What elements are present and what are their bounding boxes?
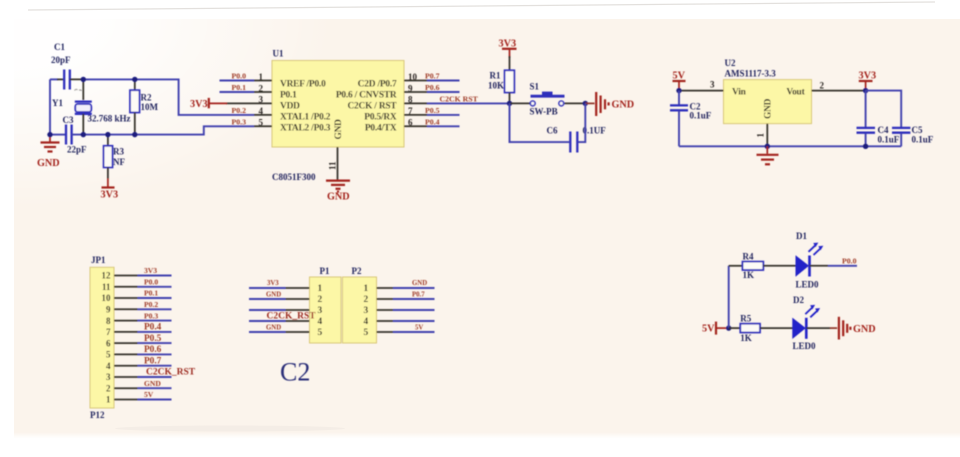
svg-text:2: 2 xyxy=(106,383,111,393)
wire: left ground rail xyxy=(49,79,51,134)
svg-text:1K: 1K xyxy=(740,333,752,343)
wire P0.6 xyxy=(138,353,172,355)
svg-text:10: 10 xyxy=(408,72,418,82)
svg-text:5V: 5V xyxy=(673,71,686,82)
P2 wire P0.7 xyxy=(393,298,435,300)
svg-text:11: 11 xyxy=(328,161,338,170)
wire P0.3 xyxy=(138,320,172,322)
svg-text:P0.5: P0.5 xyxy=(425,106,440,115)
svg-text:3: 3 xyxy=(364,306,369,316)
pin 3 xyxy=(226,102,272,104)
pin 11 xyxy=(114,286,138,288)
svg-text:4: 4 xyxy=(364,317,369,327)
P2 pin 5 xyxy=(377,331,394,333)
wire: bottom wire to pin5 jog xyxy=(72,126,254,134)
pin stub C1 left xyxy=(57,78,64,80)
wire R5 to D2 xyxy=(760,327,793,329)
svg-text:P0.1: P0.1 xyxy=(232,83,247,92)
svg-text:5: 5 xyxy=(318,328,323,338)
svg-text:1: 1 xyxy=(756,133,766,138)
ground GND right of S1 (rotated) xyxy=(596,92,634,116)
svg-text:P1: P1 xyxy=(320,266,330,276)
resistor R2 xyxy=(130,79,140,134)
pin 5 xyxy=(114,353,138,355)
wire D1 to P0.0 xyxy=(810,265,829,267)
power 5V LED xyxy=(702,322,729,335)
svg-text:1: 1 xyxy=(106,395,111,405)
svg-text:LED0: LED0 xyxy=(793,341,817,351)
svg-text:5: 5 xyxy=(106,350,111,360)
wire pin2 P0.1 xyxy=(220,91,255,93)
svg-text:3: 3 xyxy=(106,372,111,382)
svg-text:2: 2 xyxy=(259,83,264,93)
pin 2 Vout wire xyxy=(812,90,866,92)
svg-text:U1: U1 xyxy=(273,49,284,59)
junction node GND rail xyxy=(765,144,770,149)
svg-text:P2: P2 xyxy=(352,266,362,276)
ground GND below U2 xyxy=(757,146,779,164)
svg-text:P0.6: P0.6 xyxy=(425,83,440,92)
svg-text:XTAL1 /P0.2: XTAL1 /P0.2 xyxy=(280,113,331,123)
svg-text:D1: D1 xyxy=(796,231,807,241)
P1 wire GND xyxy=(249,298,286,300)
pin 8 xyxy=(114,320,138,322)
P1 wire pin3 xyxy=(249,309,286,311)
wire R4 to D1 xyxy=(763,265,796,267)
wire node to ground xyxy=(585,102,594,104)
svg-text:10M: 10M xyxy=(141,102,159,112)
svg-text:5V: 5V xyxy=(702,323,715,334)
wire C2CK RST to R1 node xyxy=(427,102,510,104)
svg-text:P0.7: P0.7 xyxy=(412,291,425,298)
P2 wire 5V xyxy=(393,331,435,333)
svg-text:GND: GND xyxy=(266,291,281,298)
svg-text:3: 3 xyxy=(318,306,323,316)
svg-text:P12: P12 xyxy=(90,410,105,420)
wire 5V xyxy=(138,399,172,401)
svg-text:2: 2 xyxy=(318,295,323,305)
pin 9 xyxy=(404,91,427,93)
svg-text:SW-PB: SW-PB xyxy=(530,107,558,117)
svg-text:8: 8 xyxy=(408,95,413,105)
wire C2CK_RST xyxy=(138,376,172,378)
svg-text:2: 2 xyxy=(364,295,369,305)
wire Vout to C5 xyxy=(866,91,902,127)
capacitor C6 xyxy=(570,132,577,153)
svg-text:P0.2: P0.2 xyxy=(144,300,158,309)
svg-text:3V3: 3V3 xyxy=(267,280,279,287)
pin 1 GND stem xyxy=(766,124,768,147)
svg-text:GND: GND xyxy=(764,98,774,119)
pin 7 xyxy=(114,331,138,333)
svg-text:5V: 5V xyxy=(415,324,423,331)
svg-text:P0.4: P0.4 xyxy=(425,117,440,126)
svg-text:GND: GND xyxy=(334,119,344,140)
P1 wire GND2 xyxy=(249,331,286,333)
capacitor C4 xyxy=(857,91,876,147)
svg-text:9: 9 xyxy=(106,305,111,315)
junction node 5V LED xyxy=(726,325,731,330)
svg-text:Y1: Y1 xyxy=(52,98,63,108)
svg-text:P0.3: P0.3 xyxy=(144,311,158,320)
svg-text:C1: C1 xyxy=(54,42,65,52)
junction R2 bottom xyxy=(132,132,137,137)
P1 pin 1 xyxy=(286,287,310,289)
svg-text:P0.1: P0.1 xyxy=(144,289,158,298)
pin 5 xyxy=(254,125,272,127)
ground GND at left rail xyxy=(37,135,60,169)
svg-text:VREF /P0.0: VREF /P0.0 xyxy=(280,79,326,89)
wire P0.2 xyxy=(138,308,172,310)
wire node to R5 xyxy=(729,327,741,329)
svg-text:P0.7: P0.7 xyxy=(425,72,440,81)
LED D2 xyxy=(793,305,820,339)
pin 4 xyxy=(114,365,138,367)
svg-text:GND: GND xyxy=(327,192,350,203)
LED D1 xyxy=(796,243,823,277)
svg-text:C2CK_RST: C2CK_RST xyxy=(146,368,196,378)
svg-text:20pF: 20pF xyxy=(51,55,71,65)
wire: bottom wire left segment xyxy=(50,134,66,136)
svg-text:7: 7 xyxy=(106,327,111,337)
junction crystal top xyxy=(81,77,86,82)
resistor R1 xyxy=(505,56,515,103)
svg-text:R3: R3 xyxy=(113,147,124,157)
wire pin1 P0.0 xyxy=(220,80,255,82)
svg-text:JP1: JP1 xyxy=(91,255,106,265)
pin 9 xyxy=(114,308,138,310)
resistor R3 xyxy=(104,135,113,179)
svg-text:0.1uF: 0.1uF xyxy=(912,135,934,145)
wire node to S1 xyxy=(510,102,531,104)
svg-text:R1: R1 xyxy=(490,71,501,81)
pin 3 Vin wire xyxy=(679,90,724,92)
svg-text:C5: C5 xyxy=(912,125,923,135)
svg-text:U2: U2 xyxy=(725,58,736,68)
svg-text:R2: R2 xyxy=(141,93,152,103)
pin 6 xyxy=(114,342,138,344)
wire P0.7 xyxy=(427,80,460,82)
pin 2 xyxy=(114,387,138,389)
svg-text:Vin: Vin xyxy=(732,88,747,98)
svg-text:GND: GND xyxy=(37,158,60,169)
P2 wire GND xyxy=(393,287,435,289)
svg-text:P0.0: P0.0 xyxy=(232,72,247,81)
svg-text:D2: D2 xyxy=(793,295,804,305)
svg-text:9: 9 xyxy=(408,83,413,93)
wire: top wire left of C1 xyxy=(50,78,58,80)
junction R2 top xyxy=(132,77,137,82)
svg-text:4: 4 xyxy=(106,361,111,371)
svg-text:C2CK / RST: C2CK / RST xyxy=(347,102,397,112)
wire to R4 xyxy=(729,265,743,267)
wire S1 to GND node xyxy=(565,102,586,104)
pin 10 xyxy=(404,80,427,82)
svg-text:3: 3 xyxy=(259,95,264,105)
wire GND xyxy=(138,387,172,389)
wire P0.4 xyxy=(427,125,460,127)
wire P0.6 xyxy=(427,91,460,93)
wire P0.5 xyxy=(138,342,172,344)
svg-text:3V3: 3V3 xyxy=(190,99,208,110)
wire 3V3 xyxy=(138,275,172,277)
junction R3 top xyxy=(105,132,110,137)
svg-text:11: 11 xyxy=(102,282,111,292)
svg-text:P0.4/TX: P0.4/TX xyxy=(365,124,397,134)
P1 pin 5 xyxy=(286,331,310,333)
svg-text:6: 6 xyxy=(106,338,111,348)
wire P0.1 xyxy=(138,297,172,299)
resistor R4 xyxy=(743,262,764,270)
wire C6 branch left xyxy=(510,103,570,142)
tiny print mark near C1 xyxy=(75,89,82,91)
ground GND LED (rotated) xyxy=(839,317,876,340)
pin 2 xyxy=(254,91,272,93)
junction node RST right xyxy=(583,101,588,106)
svg-text:32.768 kHz: 32.768 kHz xyxy=(88,114,131,124)
pin 4 xyxy=(254,114,272,116)
svg-text:R5: R5 xyxy=(740,314,751,324)
junction node 3V3 xyxy=(863,88,868,93)
svg-text:GND: GND xyxy=(612,100,635,111)
svg-text:P0.4: P0.4 xyxy=(144,323,162,333)
resistor R5 xyxy=(740,324,760,333)
P2 wire pin4 xyxy=(393,320,435,322)
P1 pin 3 xyxy=(286,309,310,311)
P1 pin 2 xyxy=(286,298,310,300)
svg-text:10K: 10K xyxy=(488,81,504,91)
P1 wire C2CK_RST xyxy=(249,320,286,322)
wire P0.7 xyxy=(138,365,172,367)
wire P0.5 xyxy=(427,114,460,116)
svg-text:P0.1: P0.1 xyxy=(280,90,297,100)
junction node RST left xyxy=(507,101,512,106)
svg-text:8: 8 xyxy=(106,316,111,326)
svg-text:GND: GND xyxy=(412,280,427,287)
wire net P0.0 xyxy=(828,265,857,267)
P2 pin 1 xyxy=(377,287,394,289)
svg-text:GND: GND xyxy=(853,324,876,335)
svg-text:NF: NF xyxy=(113,157,125,167)
svg-text:3V3: 3V3 xyxy=(859,71,877,82)
wire P0.4 xyxy=(138,331,172,333)
connector P1 body xyxy=(310,277,342,343)
wire P0.0 xyxy=(138,286,172,288)
power 3V3 at pin 3 xyxy=(190,98,227,110)
svg-text:1: 1 xyxy=(364,284,369,294)
svg-text:P0.5/RX: P0.5/RX xyxy=(364,113,397,123)
pin 1 xyxy=(114,399,138,401)
svg-text:C2CK_RST: C2CK_RST xyxy=(267,312,317,322)
svg-text:C2CK RST: C2CK RST xyxy=(440,94,479,103)
P2 wire pin3 xyxy=(393,309,435,311)
power 5V xyxy=(673,71,686,91)
pin 7 xyxy=(404,114,427,116)
pin 11 xyxy=(337,147,339,180)
svg-text:7: 7 xyxy=(408,106,413,116)
svg-text:1: 1 xyxy=(259,72,264,82)
svg-text:C3: C3 xyxy=(63,115,74,125)
svg-text:3V3: 3V3 xyxy=(144,266,157,275)
svg-text:P0.2: P0.2 xyxy=(232,106,247,115)
svg-text:5: 5 xyxy=(259,118,264,128)
wire 5V rail up to R4 xyxy=(728,266,730,328)
svg-text:C6: C6 xyxy=(547,126,558,136)
pin 10 xyxy=(114,297,138,299)
svg-text:P0.0: P0.0 xyxy=(144,278,158,287)
svg-text:6: 6 xyxy=(408,118,413,128)
svg-text:XTAL2 /P0.3: XTAL2 /P0.3 xyxy=(280,124,331,134)
P1 wire 3V3 xyxy=(249,287,286,289)
power 3V3 below R3 xyxy=(101,179,119,201)
wire ground rail xyxy=(679,145,901,147)
svg-text:P0.5: P0.5 xyxy=(144,334,162,344)
wire C6 branch right xyxy=(578,103,585,142)
svg-text:VDD: VDD xyxy=(280,102,300,112)
wire: top wire from C1 to pin4 jog xyxy=(86,79,254,115)
pin 6 xyxy=(404,125,427,127)
svg-text:5: 5 xyxy=(364,328,369,338)
svg-text:3V3: 3V3 xyxy=(101,190,119,201)
P1 pin 4 xyxy=(286,320,310,322)
svg-text:AMS1117-3.3: AMS1117-3.3 xyxy=(725,69,777,79)
svg-text:P0.3: P0.3 xyxy=(232,117,247,126)
svg-text:0.1uF: 0.1uF xyxy=(878,135,900,145)
svg-text:GND: GND xyxy=(144,379,161,388)
capacitor C5 xyxy=(892,128,910,146)
svg-text:4: 4 xyxy=(259,106,264,116)
power 3V3 above R1 xyxy=(499,39,517,59)
pin 8 xyxy=(404,102,427,104)
regulator U2 body xyxy=(724,80,812,124)
svg-text:4: 4 xyxy=(318,317,323,327)
wire D2 to ground xyxy=(806,327,830,329)
connector P2 body xyxy=(343,277,377,343)
svg-text:12: 12 xyxy=(102,271,112,281)
svg-text:10: 10 xyxy=(102,293,112,303)
svg-text:C8051F300: C8051F300 xyxy=(272,172,316,182)
svg-text:1K: 1K xyxy=(743,270,755,280)
switch S1 xyxy=(530,92,564,106)
pin 12 xyxy=(114,275,138,277)
capacitor C2 xyxy=(670,91,688,147)
svg-text:1: 1 xyxy=(318,284,323,294)
svg-text:P0.7: P0.7 xyxy=(144,356,162,366)
capacitor C1 xyxy=(64,70,70,90)
svg-text:3: 3 xyxy=(710,80,715,90)
svg-text:P0.6 / CNVSTR: P0.6 / CNVSTR xyxy=(336,90,397,100)
svg-text:C4: C4 xyxy=(878,125,889,135)
svg-text:C2D /P0.7: C2D /P0.7 xyxy=(358,79,397,89)
junction node 5V xyxy=(676,88,681,93)
power 3V3 at Vout xyxy=(859,71,877,91)
capacitor C3 xyxy=(66,125,72,145)
P2 pin 3 xyxy=(377,309,394,311)
pin 3 xyxy=(114,376,138,378)
svg-text:2: 2 xyxy=(820,81,825,91)
ground GND below U1 xyxy=(326,181,350,203)
svg-text:C2: C2 xyxy=(280,358,310,387)
junction node C4 rail xyxy=(863,144,868,149)
junction crystal bottom xyxy=(81,132,86,137)
svg-text:LED0: LED0 xyxy=(796,280,820,290)
svg-text:5V: 5V xyxy=(144,390,154,399)
svg-text:P0.6: P0.6 xyxy=(144,345,162,355)
pin stub C1 right xyxy=(70,78,88,80)
P2 pin 2 xyxy=(377,298,394,300)
svg-text:S1: S1 xyxy=(530,82,540,92)
P2 pin 4 xyxy=(377,320,394,322)
junction ground rail xyxy=(47,132,52,137)
svg-text:0.1uF: 0.1uF xyxy=(690,111,712,121)
svg-text:R4: R4 xyxy=(743,252,754,262)
svg-text:22pF: 22pF xyxy=(67,145,87,155)
crystal Y1 xyxy=(75,79,92,134)
svg-text:Vout: Vout xyxy=(786,88,805,98)
svg-text:P0.0: P0.0 xyxy=(842,256,857,265)
svg-text:GND: GND xyxy=(266,324,281,331)
connector JP1 body xyxy=(90,267,114,408)
pin 1 xyxy=(254,80,272,82)
op-amp U1 body xyxy=(272,61,404,148)
